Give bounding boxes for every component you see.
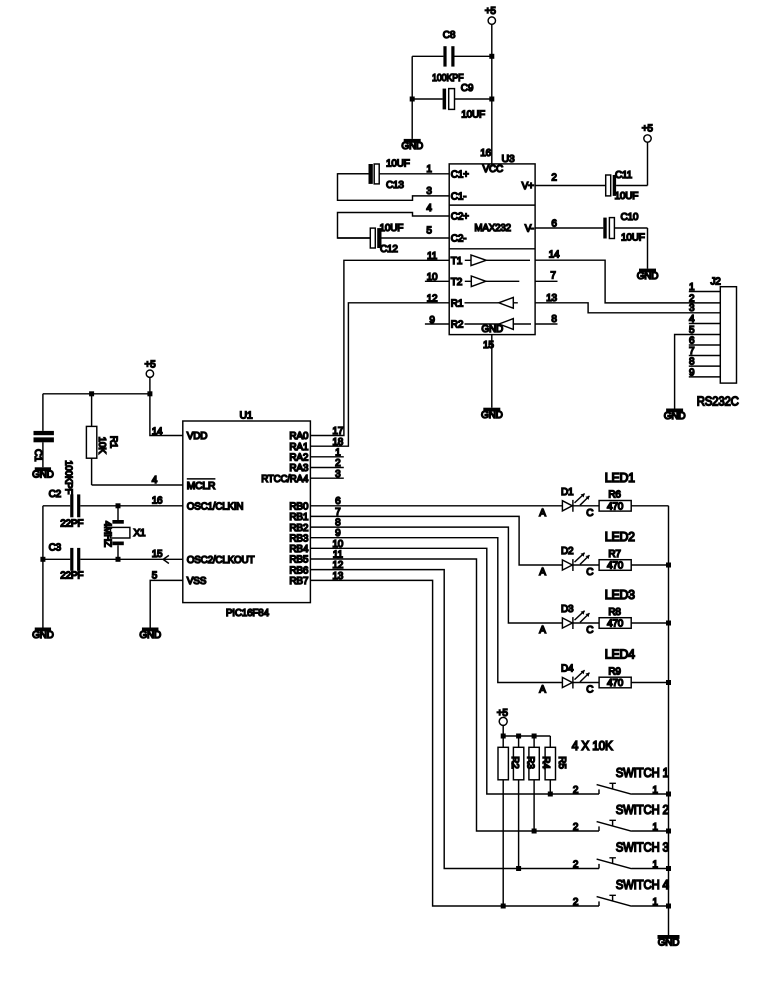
power +5 (resistor bank) [497,708,509,726]
junction bus/LED3 [666,621,671,626]
switch SWITCH 1 [573,783,669,796]
ground (J2 pin 5) [664,409,686,422]
label R3 [524,756,535,769]
wire +5 rail [43,393,150,395]
svg-text:VDD: VDD [187,431,208,442]
wire R9 to bus [631,682,668,684]
svg-text:22PF: 22PF [60,571,83,582]
svg-text:GND: GND [32,630,54,641]
resistor R2 [498,736,508,906]
svg-text:4 X 10K: 4 X 10K [572,739,614,753]
svg-text:2: 2 [551,173,557,184]
capacitor C8 [412,30,492,84]
capacitor C9 [412,83,492,121]
ground (U1 VSS) [139,628,161,641]
svg-text:RB3: RB3 [289,533,308,544]
svg-text:2: 2 [573,822,579,833]
svg-text:GND: GND [481,324,503,335]
svg-text:7: 7 [689,346,695,357]
svg-text:2: 2 [573,859,579,870]
pin 3 U1 RTCC/RA4 stub [310,477,343,479]
junction R5/switch row [548,792,553,797]
svg-text:MCLR: MCLR [187,481,215,492]
svg-text:GND: GND [139,630,161,641]
svg-text:C2-: C2- [451,234,467,245]
svg-text:LED3: LED3 [605,588,635,602]
buffer R1 (inside U3) [465,297,518,308]
svg-text:C13: C13 [386,180,404,191]
wire R6 to bus [631,505,668,507]
svg-text:X1: X1 [134,528,146,539]
svg-text:R2: R2 [509,756,520,769]
svg-text:D1: D1 [561,487,574,498]
svg-text:RA1: RA1 [289,442,308,453]
resistor R9 [599,666,631,689]
wire R7 to bus [631,564,668,566]
svg-text:10UF: 10UF [615,191,639,202]
capacitor C11 [606,142,648,202]
svg-text:RS232C: RS232C [697,394,739,408]
switch SWITCH 4 [573,895,669,908]
svg-text:C: C [586,625,593,636]
svg-text:22PF: 22PF [60,518,83,529]
junction rail/R4 [532,734,537,739]
ground (C10) [637,269,659,282]
svg-text:16: 16 [152,496,163,507]
junction rail/VDD [147,391,152,396]
resistor R3 [513,736,523,869]
svg-text:470: 470 [607,561,624,572]
wire R8 to bus [631,622,668,624]
wire C2/C3 left to ground [42,506,44,628]
svg-text:11: 11 [427,251,438,262]
svg-text:SWITCH 4: SWITCH 4 [616,878,669,892]
svg-text:8: 8 [689,357,695,368]
svg-text:100KPF: 100KPF [432,73,463,84]
pin 5 J2 GND wire [675,325,721,409]
svg-text:C: C [586,567,593,578]
svg-text:A: A [539,625,546,636]
svg-text:6: 6 [551,218,557,229]
pin 6 J2 stub [689,335,721,346]
svg-text:1: 1 [689,282,695,293]
svg-text:OSC1/CLKIN: OSC1/CLKIN [187,502,244,513]
pin 6 U3 (V-) wire [535,218,603,229]
svg-text:R4: R4 [540,756,551,769]
svg-text:1: 1 [652,822,658,833]
connector J2 body [711,277,737,384]
resistor R1 [86,394,118,485]
svg-text:R9: R9 [608,666,621,677]
svg-text:C: C [586,685,593,696]
junction R2/switch row [501,904,506,909]
svg-text:5: 5 [426,226,432,237]
ground (C8/C9) [401,139,423,152]
pin 11 U3 / wire from U1 RA0 [310,251,449,436]
svg-text:RB2: RB2 [289,523,308,534]
junction rail/R1 [89,391,94,396]
svg-text:RB0: RB0 [289,502,308,513]
capacitor C2 [43,489,183,529]
svg-text:C2+: C2+ [451,212,469,223]
pin 14 U1 VDD wire [150,377,183,437]
svg-text:RA0: RA0 [289,431,308,442]
svg-text:13: 13 [546,293,557,304]
junction bus/LED4 [666,680,671,685]
wire cathode bus (right vertical) [668,506,670,935]
pin 14 U3 wire to J2 pin 2 [535,250,720,303]
junction R4/switch row [532,829,537,834]
svg-text:10K: 10K [96,437,107,455]
junction C8/+5 [489,54,494,59]
buffer T2 (inside U3) [465,276,520,287]
svg-text:U1: U1 [240,409,253,421]
svg-text:9: 9 [689,367,695,378]
svg-text:5: 5 [689,325,695,336]
svg-text:C1+: C1+ [451,169,469,180]
LED D1 [539,487,599,519]
wire RB2 to LED3 [310,527,562,623]
junction bus/switch 4 [666,904,671,909]
svg-text:C10: C10 [621,212,639,223]
svg-text:1: 1 [652,785,658,796]
svg-text:RB6: RB6 [289,565,308,576]
pin 13 U3 wire to J2 pin 3 [535,293,720,313]
svg-text:R1: R1 [108,436,119,449]
wire C8/C9 left side [411,56,413,139]
wire +5 down to U3 pin 16 VCC [491,24,493,164]
svg-text:RA3: RA3 [289,463,308,474]
ground (C2/C3) [32,628,54,641]
svg-text:100KPF: 100KPF [62,460,73,494]
junction rail/R3 [516,734,521,739]
svg-text:9: 9 [429,315,435,326]
svg-text:RTCC/RA4: RTCC/RA4 [261,474,309,485]
label R4 [540,756,551,769]
svg-text:10UF: 10UF [461,110,485,121]
pin 4 U1 MCLR wire [92,475,183,486]
junction R3/switch row [516,866,521,871]
svg-text:LED2: LED2 [605,530,635,544]
svg-text:J2: J2 [711,277,722,288]
svg-text:3: 3 [689,303,695,314]
resistor R7 [599,549,631,572]
capacitor C10 [603,212,647,269]
pin 8 U3 stub [535,314,557,325]
wire RB5 to switch 2 [310,559,599,831]
pin 5 U3 (C2-) wire [381,226,449,239]
svg-text:C1: C1 [32,449,43,462]
svg-text:RA2: RA2 [289,453,308,464]
capacitor C13 [338,158,410,191]
IC U1 PIC16F84 body [183,409,311,619]
svg-text:RB1: RB1 [289,512,308,523]
svg-text:4MHZ: 4MHZ [101,521,112,547]
capacitor C12 [338,223,404,255]
power +5 (U1 VDD) [145,359,157,377]
resistor R8 [599,607,631,630]
svg-text:R2: R2 [451,320,464,331]
svg-text:16: 16 [480,148,491,159]
svg-text:VCC: VCC [483,164,504,175]
label R2 [509,756,520,769]
svg-text:5: 5 [152,570,158,581]
svg-text:R1: R1 [451,298,464,309]
pin 9 U3 stub [425,315,449,326]
svg-text:1: 1 [652,859,658,870]
svg-text:2: 2 [573,785,579,796]
svg-text:4: 4 [152,475,158,486]
svg-text:A: A [539,508,546,519]
svg-text:14: 14 [152,427,163,438]
svg-text:PIC16F84: PIC16F84 [226,607,269,619]
power +5 (top, to MAX232 VCC) [485,6,497,24]
svg-text:+5: +5 [145,359,157,370]
wire RB0 to LED1 [310,505,562,507]
pin 4 U3 (C2+) wire [338,203,450,238]
junction C3 left [40,557,45,562]
svg-text:17: 17 [332,426,343,437]
junction X1 top [116,503,121,508]
svg-text:18: 18 [332,437,343,448]
wire RB1 to LED2 [310,516,562,565]
pin 10 U3 stub [425,272,449,283]
svg-text:R6: R6 [608,490,621,501]
wire RB6 to switch 3 [310,570,599,869]
svg-text:MAX232: MAX232 [474,222,511,234]
svg-text:4: 4 [689,314,695,325]
pin 8 J2 stub [689,357,721,368]
svg-text:LED1: LED1 [605,471,635,485]
svg-text:7: 7 [550,270,556,281]
junction bus/LED2 [666,563,671,568]
svg-text:T1: T1 [451,256,463,267]
junction C9/+5 [489,97,494,102]
svg-text:SWITCH 1: SWITCH 1 [616,766,669,780]
svg-text:C: C [586,508,593,519]
resistor R5 [545,736,555,794]
pin 12 U3 / wire from U1 RA1 [310,294,449,447]
pin 4 J2 stub [689,314,721,325]
svg-text:RB4: RB4 [289,544,308,555]
power +5 (C11) [642,123,654,142]
pin 9 J2 stub [689,367,721,378]
svg-text:R3: R3 [524,756,535,769]
svg-text:OSC2/CLKOUT: OSC2/CLKOUT [187,555,255,566]
ground (switch bus) [658,935,680,948]
pin 1 U3 (C1+) wire [379,164,449,175]
pin 1 J2 stub [689,282,721,293]
svg-text:12: 12 [427,294,438,305]
svg-text:6: 6 [689,335,695,346]
svg-text:1: 1 [652,897,658,908]
svg-text:LED4: LED4 [605,648,635,662]
svg-text:A: A [539,567,546,578]
svg-text:10UF: 10UF [386,158,410,169]
svg-text:D2: D2 [561,546,574,557]
svg-text:GND: GND [664,411,686,422]
svg-text:C1-: C1- [451,191,467,202]
svg-text:T2: T2 [451,277,463,288]
pin 2 U1 RA3 stub [310,467,343,469]
svg-text:R8: R8 [608,607,621,618]
capacitor C3 [43,542,183,581]
svg-text:C9: C9 [461,83,474,94]
junction C9 left [410,97,415,102]
svg-text:15: 15 [483,340,494,351]
svg-text:D3: D3 [561,604,574,615]
junction bus/switch 3 [666,866,671,871]
svg-text:10UF: 10UF [621,233,645,244]
svg-text:4: 4 [426,203,432,214]
svg-text:RB5: RB5 [289,555,308,566]
junction bus/switch 1 [666,792,671,797]
pin 7 U3 stub [535,270,557,281]
svg-text:+5: +5 [485,6,497,17]
svg-text:R7: R7 [608,549,621,560]
wire +5 to resistor bank rail [503,725,550,736]
svg-text:10: 10 [427,272,438,283]
ground (U3 pin 15) [481,408,503,421]
pin 15 U3 GND wire [483,335,494,408]
svg-text:A: A [539,685,546,696]
pin 15 U1 label and clock-out arrow [152,549,169,564]
svg-text:GND: GND [481,410,503,421]
svg-text:470: 470 [607,678,624,689]
capacitor C1 [32,394,74,494]
svg-text:SWITCH 3: SWITCH 3 [616,840,669,854]
junction rail/R2 [501,734,506,739]
switch SWITCH 2 [573,820,669,833]
svg-text:1: 1 [426,164,432,175]
svg-text:+5: +5 [642,123,654,134]
junction bus/switch 2 [666,829,671,834]
svg-text:GND: GND [637,271,659,282]
svg-text:U3: U3 [502,153,515,165]
svg-text:GND: GND [401,141,423,152]
LED D3 [539,604,599,636]
svg-text:C11: C11 [615,170,633,181]
svg-text:14: 14 [549,250,560,261]
svg-text:C12: C12 [380,244,398,255]
op-amp U3 MAX232 body [449,153,535,335]
svg-text:15: 15 [152,549,163,560]
svg-text:2: 2 [573,897,579,908]
LED D2 [539,546,599,578]
svg-text:C8: C8 [443,30,456,41]
resistor R4 [529,736,539,831]
svg-text:VSS: VSS [187,576,207,587]
svg-text:V+: V+ [522,181,534,192]
wire RB7 to switch 4 [310,580,599,906]
pin 5 U1 VSS wire [150,570,183,627]
resistor R6 [599,490,631,513]
svg-text:V-: V- [525,224,534,235]
pin 3 U3 (C1-) wire [338,174,450,201]
svg-text:C2: C2 [49,489,62,500]
svg-text:RB7: RB7 [289,576,308,587]
svg-text:R5: R5 [556,756,567,769]
svg-text:GND: GND [658,937,680,948]
svg-text:C3: C3 [49,542,62,553]
buffer R2 (inside U3) [465,319,532,330]
junction X1 bottom [116,557,121,562]
svg-text:470: 470 [607,619,624,630]
pin 1 U1 RA2 stub [310,456,343,458]
switch SWITCH 3 [573,858,669,871]
svg-text:10UF: 10UF [380,223,404,234]
ground (C1) [32,467,54,480]
svg-text:SWITCH 2: SWITCH 2 [616,803,669,817]
svg-text:8: 8 [551,314,557,325]
svg-text:470: 470 [607,501,624,512]
label R5 [556,756,567,769]
crystal X1 [101,506,146,560]
buffer T1 (inside U3) [465,255,530,266]
wire RB4 to switch 1 [310,548,599,794]
svg-text:D4: D4 [561,664,574,675]
pin 2 U3 (V+) wire [535,173,606,186]
svg-text:GND: GND [32,470,54,481]
pin 7 J2 stub [689,346,721,357]
LED D4 [539,664,599,696]
wire RB3 to LED4 [310,538,562,683]
svg-text:3: 3 [426,186,432,197]
